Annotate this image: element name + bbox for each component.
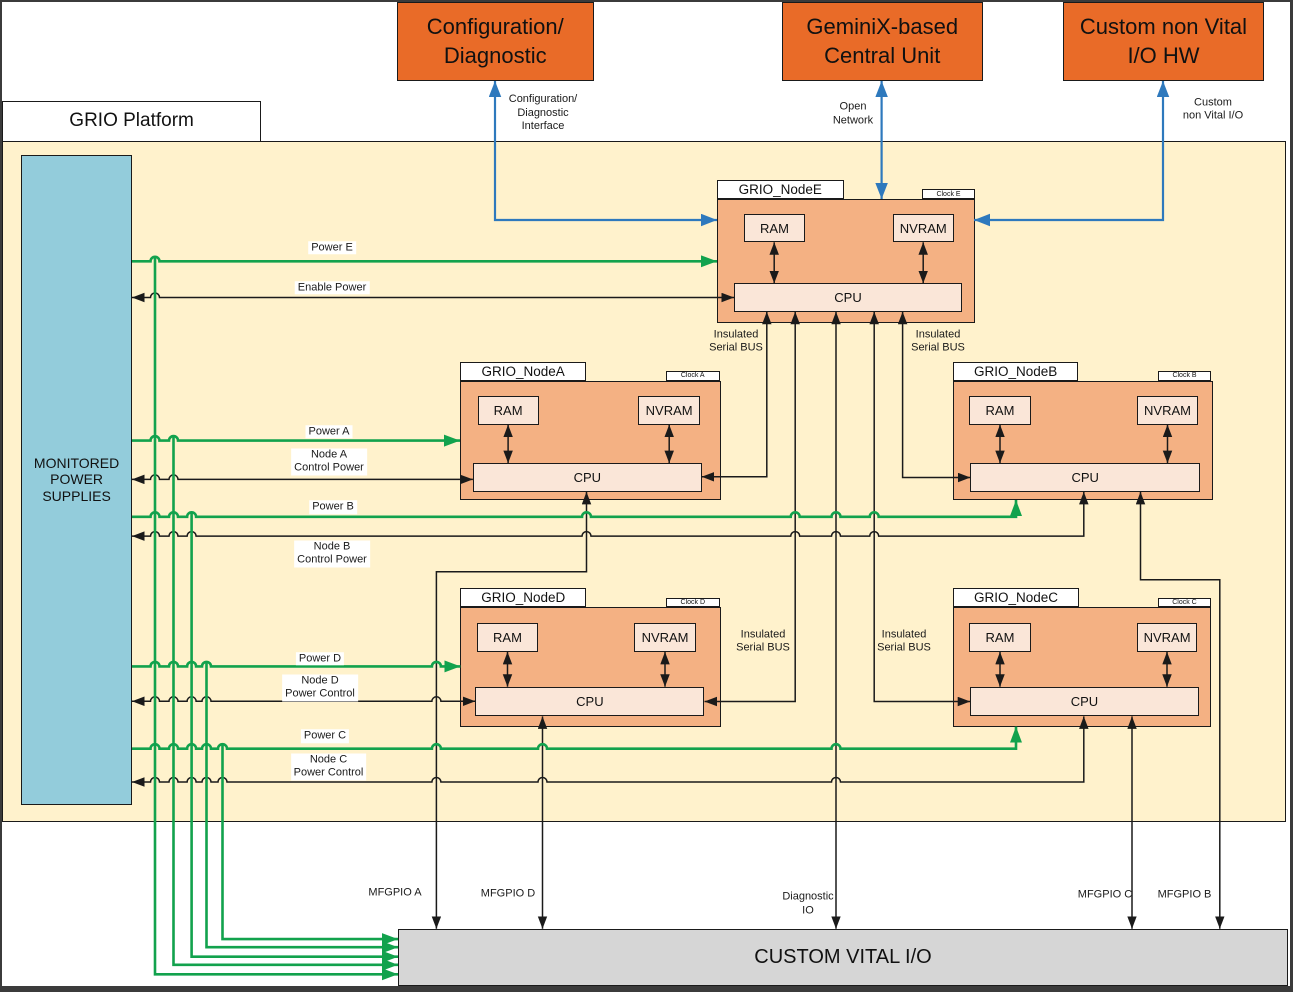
wire green riser 1 (Power E tap) <box>155 258 398 975</box>
wire Open Network (blue) <box>880 81 882 199</box>
node GRIO_NodeB label box <box>953 362 1079 381</box>
clock box Clock E <box>922 189 975 199</box>
GRIO Platform background area <box>2 141 1286 822</box>
NVRAM-CPU arrow NodeC <box>1166 652 1168 687</box>
clock box Clock A <box>666 371 720 381</box>
label Power C <box>301 729 349 743</box>
CPU of GRIO_NodeD <box>475 687 704 717</box>
wire Node C Power Control <box>132 716 1084 782</box>
RAM of GRIO_NodeC <box>969 623 1031 652</box>
outer frame left <box>0 0 2 992</box>
wire green riser 2 (Power A tap) <box>174 437 399 965</box>
wire Node B Control Power <box>132 492 1084 536</box>
node GRIO_NodeC main box <box>953 607 1211 726</box>
wire Node D Power Control <box>132 697 475 702</box>
label Power E <box>308 241 356 255</box>
label Node C Power Control <box>291 753 367 780</box>
CPU of GRIO_NodeA <box>473 463 702 492</box>
label MFGPIO C <box>1078 888 1132 902</box>
label Node B Control Power <box>294 540 370 567</box>
node GRIO_NodeE label box <box>717 180 844 199</box>
wire MFGPIO B <box>1141 492 1220 929</box>
NVRAM of GRIO_NodeC <box>1137 623 1198 652</box>
wire Power B (green) <box>132 500 1016 517</box>
wire Insulated Serial BUS NodeE-NodeB <box>903 312 971 478</box>
GRIO Platform title box <box>2 101 261 142</box>
wire MFGPIO C <box>1131 716 1133 928</box>
wire Node A Control Power <box>132 475 473 480</box>
wire Insulated Serial BUS NodeE-NodeC <box>874 312 970 702</box>
block Custom non Vital I/O HW <box>1063 2 1264 81</box>
block Configuration/Diagnostic <box>397 2 595 81</box>
NVRAM of GRIO_NodeD <box>634 623 695 652</box>
outer frame bottom <box>0 986 1293 992</box>
node GRIO_NodeA main box <box>460 381 721 500</box>
label Open Network <box>833 101 873 128</box>
label Power B <box>309 500 357 514</box>
label MFGPIO B <box>1158 888 1212 902</box>
label Configuration/Diagnostic Interface <box>509 93 578 134</box>
node GRIO_NodeC label box <box>953 588 1079 607</box>
NVRAM-CPU arrow NodeB <box>1167 425 1169 464</box>
label MFGPIO A <box>368 886 421 900</box>
label MFGPIO D <box>481 887 535 901</box>
wire MFGPIO D <box>542 716 544 928</box>
wire MFGPIO A <box>436 492 586 929</box>
label Insulated Serial BUS (E-D) <box>736 628 790 655</box>
label Node D Power Control <box>282 674 358 701</box>
outer frame top <box>0 0 1293 2</box>
NVRAM-CPU arrow NodeA <box>668 425 670 464</box>
node GRIO_NodeA label box <box>460 362 586 381</box>
label Custom non Vital I/O <box>1183 96 1243 123</box>
clock box Clock B <box>1158 371 1211 381</box>
CPU of GRIO_NodeE <box>734 283 962 312</box>
label Insulated Serial BUS (E-B) <box>911 328 965 355</box>
label Diagnostic IO <box>782 891 833 918</box>
NVRAM-CPU arrow NodeD <box>664 652 666 687</box>
wire Power E (green) <box>132 257 717 262</box>
wire Power D (green) <box>132 662 460 667</box>
node GRIO_NodeD label box <box>460 588 586 607</box>
NVRAM of GRIO_NodeB <box>1137 396 1198 424</box>
outer frame right <box>1290 0 1293 992</box>
node GRIO_NodeE main box <box>717 199 975 323</box>
clock box Clock C <box>1158 598 1211 608</box>
CPU of GRIO_NodeC <box>970 687 1199 717</box>
RAM of GRIO_NodeE <box>744 214 805 242</box>
block CUSTOM VITAL I/O <box>398 929 1288 986</box>
label Power A <box>306 425 353 439</box>
wire Insulated Serial BUS NodeE-NodeD <box>705 312 796 702</box>
RAM-CPU arrow NodeD <box>507 652 509 687</box>
wire Power A (green) <box>132 436 460 441</box>
wire green riser 3 (Power B tap) <box>192 513 398 957</box>
NVRAM of GRIO_NodeE <box>893 214 954 242</box>
RAM-CPU arrow NodeB <box>999 425 1001 464</box>
wire Diagnostic IO <box>835 312 837 929</box>
block GeminiX-based Central Unit <box>782 2 984 81</box>
wire green riser 5 (Power C tap) <box>223 745 399 939</box>
wire Configuration/Diagnostic Interface (blue) <box>495 81 717 220</box>
CPU of GRIO_NodeB <box>970 463 1200 492</box>
label Node A Control Power <box>291 448 367 475</box>
wire Custom non Vital I/O (blue) <box>974 81 1163 220</box>
RAM of GRIO_NodeB <box>969 396 1031 424</box>
NVRAM-CPU arrow NodeE <box>922 242 924 283</box>
wire green riser 4 (Power D tap) <box>207 663 399 948</box>
label Enable Power <box>295 281 370 295</box>
node GRIO_NodeB main box <box>953 381 1213 500</box>
block MONITORED POWER SUPPLIES <box>21 155 132 805</box>
node GRIO_NodeD main box <box>460 607 720 726</box>
RAM of GRIO_NodeA <box>478 396 539 424</box>
RAM-CPU arrow NodeE <box>773 242 775 283</box>
RAM-CPU arrow NodeC <box>999 652 1001 687</box>
wire Power C (green) <box>132 727 1016 749</box>
RAM of GRIO_NodeD <box>477 623 538 652</box>
label Power D <box>296 652 344 666</box>
RAM-CPU arrow NodeA <box>507 425 509 464</box>
NVRAM of GRIO_NodeA <box>638 396 700 424</box>
label Insulated Serial BUS (E-C) <box>877 628 931 655</box>
wire Enable Power <box>132 293 734 298</box>
clock box Clock D <box>666 598 720 608</box>
label Insulated Serial BUS (E-A) <box>709 328 763 355</box>
wire Insulated Serial BUS NodeE-NodeA <box>702 312 767 477</box>
